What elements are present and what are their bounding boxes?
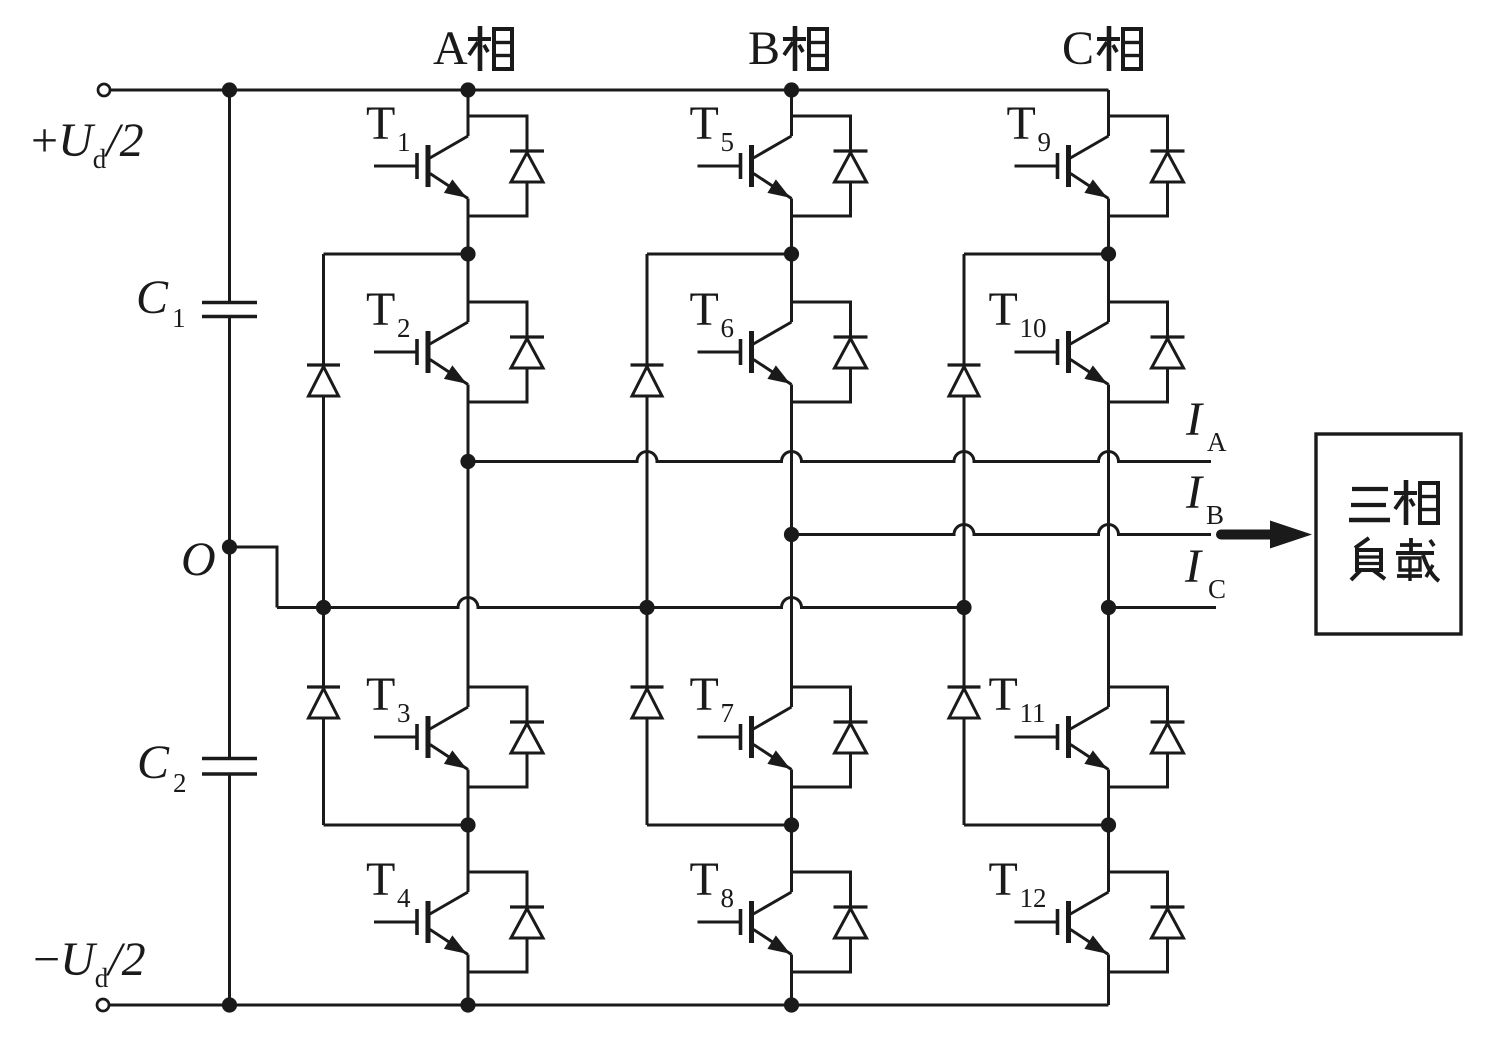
transistor T7 (IGBT) — [698, 736, 741, 739]
transistor T3 (IGBT) — [374, 736, 417, 739]
svg-text:1: 1 — [172, 303, 186, 333]
svg-text:C: C — [137, 736, 170, 789]
wire: DC-link rail upper segment — [228, 90, 231, 303]
node O (neutral point) — [222, 539, 237, 554]
junction: phase A clamp at neutral rail — [316, 600, 331, 615]
svg-text:O: O — [181, 533, 216, 586]
diode: phase B lower clamp — [631, 685, 664, 688]
diode: T11 antiparallel — [1109, 687, 1168, 722]
junction: phase B at top bus — [784, 82, 799, 97]
diode: T1 antiparallel — [468, 116, 527, 151]
wire: clamp node to lower clamp diode — [964, 824, 1109, 827]
svg-text:B: B — [748, 22, 780, 75]
wire: T4 collector link — [467, 825, 470, 892]
wire: clamp node to lower clamp diode — [324, 824, 469, 827]
wire: clamp node to lower clamp diode — [647, 824, 792, 827]
wire: T7 emitter to clamp node — [790, 770, 793, 826]
diode: T10 antiparallel — [1109, 302, 1168, 337]
svg-text:9: 9 — [1038, 127, 1052, 157]
svg-text:I: I — [1185, 466, 1204, 519]
svg-text:T: T — [366, 668, 395, 721]
wire: I_B output line (hops over C leg) — [792, 525, 1212, 535]
svg-text:T: T — [366, 283, 395, 336]
diode: T2 antiparallel — [468, 302, 527, 337]
terminal: -Ud/2 input — [97, 999, 109, 1011]
wire: top DC bus (+Ud/2 rail) — [111, 89, 1109, 92]
wire: phase B leg, bus to T5 collector — [790, 90, 793, 136]
svg-text:4: 4 — [397, 883, 411, 913]
wire: T8 emitter to bottom bus — [790, 955, 793, 1006]
svg-text:−Ud/2: −Ud/2 — [33, 933, 146, 993]
wire: DC-link rail middle segment — [228, 317, 231, 759]
wire: phase B clamp branch vertical — [646, 254, 649, 365]
diode: T4 antiparallel — [468, 872, 527, 907]
transistor T2 (IGBT) — [374, 351, 417, 354]
diode: T12 antiparallel — [1109, 872, 1168, 907]
wire: I_C output line — [1109, 606, 1217, 609]
svg-text:C: C — [1062, 22, 1094, 75]
diode: phase A lower clamp — [307, 685, 340, 688]
diode: T7 antiparallel — [792, 687, 851, 722]
box: three-phase load — [1316, 434, 1461, 634]
transistor T10 (IGBT) — [1015, 351, 1058, 354]
junction: T1/T2 clamp node — [460, 246, 475, 261]
wire: T11 emitter to clamp node — [1107, 770, 1110, 826]
transistor T4 (IGBT) — [374, 921, 417, 924]
diode: T8 antiparallel — [792, 872, 851, 907]
diode: T9 antiparallel — [1109, 116, 1168, 151]
diode: T6 antiparallel — [792, 302, 851, 337]
transistor T6 (IGBT) — [698, 351, 741, 354]
wire: O to neutral rail (L bend) — [230, 547, 278, 608]
wire: T1 emitter to clamp node — [467, 199, 470, 255]
svg-text:6: 6 — [721, 313, 735, 343]
junction: DC-link at bottom bus — [222, 997, 237, 1012]
svg-text:10: 10 — [1020, 313, 1047, 343]
svg-text:B: B — [1206, 500, 1224, 530]
svg-text:T: T — [989, 668, 1018, 721]
junction: phase C clamp at neutral rail — [956, 600, 971, 615]
transistor T5 (IGBT) — [698, 165, 741, 168]
label: 负载 (load) — [1355, 538, 1369, 548]
diode: T5 antiparallel — [792, 116, 851, 151]
svg-text:2: 2 — [397, 313, 411, 343]
svg-text:T: T — [690, 283, 719, 336]
diode: phase B upper clamp — [631, 363, 664, 366]
junction: phase A at bottom bus — [460, 997, 475, 1012]
wire: T4 emitter to bottom bus — [467, 955, 470, 1006]
wire: neutral rail (hops over phase A and B legs) — [277, 598, 964, 608]
svg-text:T: T — [690, 97, 719, 150]
svg-text:11: 11 — [1020, 698, 1046, 728]
junction: phase B clamp at neutral rail — [639, 600, 654, 615]
junction: phase C output node — [1101, 600, 1116, 615]
wire: T8 collector link — [790, 825, 793, 892]
wire: T12 emitter to bottom bus — [1107, 955, 1110, 1006]
svg-text:T: T — [690, 668, 719, 721]
svg-text:A: A — [1207, 427, 1227, 457]
junction: DC-link at top bus — [222, 82, 237, 97]
svg-text:8: 8 — [721, 883, 735, 913]
junction: phase B at bottom bus — [784, 997, 799, 1012]
wire: phase C clamp branch vertical — [963, 254, 966, 365]
junction: T5/T6 clamp node — [784, 246, 799, 261]
svg-text:T: T — [690, 853, 719, 906]
svg-text:2: 2 — [173, 768, 187, 798]
wire: T6 collector link — [790, 254, 793, 322]
wire: T5 emitter to clamp node — [790, 199, 793, 255]
capacitor C1 — [202, 301, 257, 304]
svg-text:+Ud/2: +Ud/2 — [31, 114, 144, 174]
svg-text:T: T — [366, 853, 395, 906]
diode: phase C upper clamp — [948, 363, 981, 366]
diode: phase A upper clamp — [307, 363, 340, 366]
diode: T3 antiparallel — [468, 687, 527, 722]
label: 三相 (three-phase) — [1352, 487, 1388, 491]
junction: T9/T10 clamp node — [1101, 246, 1116, 261]
svg-text:T: T — [989, 853, 1018, 906]
terminal: +Ud/2 input — [98, 84, 110, 96]
svg-text:12: 12 — [1020, 883, 1047, 913]
junction: T7/T8 clamp node — [784, 817, 799, 832]
arrow: outputs to three-phase load — [1221, 530, 1272, 540]
svg-text:A: A — [433, 22, 468, 75]
wire: T12 collector link — [1107, 825, 1110, 892]
svg-text:1: 1 — [397, 127, 411, 157]
svg-text:I: I — [1185, 393, 1204, 446]
svg-text:T: T — [989, 283, 1018, 336]
wire: T10 collector link — [1107, 254, 1110, 322]
wire: T9 emitter to clamp node — [1107, 199, 1110, 255]
wire: T10 emitter to phase C output — [1107, 385, 1110, 708]
wire: T6 emitter to phase B output — [790, 385, 793, 708]
svg-text:T: T — [1007, 97, 1036, 150]
transistor T1 (IGBT) — [374, 165, 417, 168]
transistor T9 (IGBT) — [1015, 165, 1058, 168]
diode: phase C lower clamp — [948, 685, 981, 688]
junction: phase A output node — [460, 454, 475, 469]
wire: bottom DC bus (-Ud/2 rail) — [110, 1004, 1109, 1007]
svg-text:C: C — [136, 271, 169, 324]
wire: DC-link rail lower segment — [228, 774, 231, 1005]
wire: phase A clamp branch vertical — [322, 254, 325, 365]
svg-text:C: C — [1208, 574, 1226, 604]
wire: T2 emitter to phase A output — [467, 385, 470, 708]
svg-text:7: 7 — [721, 698, 735, 728]
capacitor C2 — [202, 757, 257, 760]
transistor T11 (IGBT) — [1015, 736, 1058, 739]
junction: T11/T12 clamp node — [1101, 817, 1116, 832]
junction: phase A at top bus — [460, 82, 475, 97]
junction: phase B output node — [784, 527, 799, 542]
wire: clamp node to upper clamp diode — [647, 253, 792, 256]
wire: phase C leg, bus to T9 collector — [1107, 90, 1110, 136]
svg-text:I: I — [1184, 540, 1203, 593]
wire: I_A output line (hops over B/C legs) — [468, 452, 1211, 462]
junction: T3/T4 clamp node — [460, 817, 475, 832]
wire: clamp node to upper clamp diode — [324, 253, 469, 256]
svg-text:5: 5 — [721, 127, 735, 157]
wire: T3 emitter to clamp node — [467, 770, 470, 826]
wire: clamp node to upper clamp diode — [964, 253, 1109, 256]
svg-text:T: T — [366, 97, 395, 150]
transistor T12 (IGBT) — [1015, 921, 1058, 924]
transistor T8 (IGBT) — [698, 921, 741, 924]
wire: phase A leg, bus to T1 collector — [467, 90, 470, 136]
svg-text:3: 3 — [397, 698, 411, 728]
wire: T2 collector link — [467, 254, 470, 322]
